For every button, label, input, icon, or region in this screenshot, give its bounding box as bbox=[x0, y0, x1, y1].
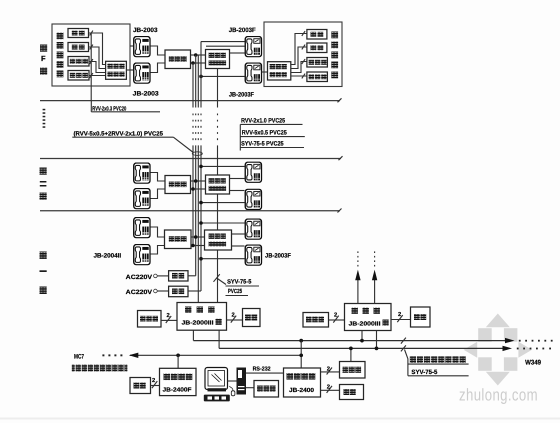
intercom phone B1 (floor1) bbox=[134, 244, 150, 264]
svg-text:RVV-2x1.0 PVC25: RVV-2x1.0 PVC25 bbox=[241, 117, 285, 124]
label floor 2 (第二层) bbox=[40, 168, 47, 200]
power supply 电源 (door2) bbox=[411, 307, 431, 327]
label (到各副管理机数量) bbox=[72, 365, 128, 372]
collector 四表采集器 (left) bbox=[106, 61, 127, 79]
wire stub box edge to phone1 bbox=[130, 45, 133, 47]
drop door2 to bus1 bbox=[361, 331, 363, 341]
svg-text:JB-2003: JB-2003 bbox=[133, 27, 158, 34]
junction dots on riser (floor F) bbox=[194, 53, 198, 57]
wire AC220V to power supply 2 bbox=[157, 290, 168, 292]
up arrow line 2 from door unit 2 bbox=[372, 251, 377, 304]
cable count slashes (right meters) bbox=[302, 31, 305, 78]
intercom phone 4 JB-2003F bbox=[245, 63, 261, 83]
computer tower bbox=[237, 368, 247, 395]
wire 电表 to collector bbox=[89, 33, 106, 65]
junction dot bus3 end bbox=[299, 353, 303, 357]
management computer monitor bbox=[205, 368, 228, 392]
svg-text:AC220V: AC220V bbox=[126, 289, 153, 296]
intercom phone B (floor2) bbox=[134, 188, 150, 208]
svg-text:W349: W349 bbox=[525, 359, 541, 366]
wire 水表 to collector bbox=[89, 47, 106, 69]
drop door2 to bus2 bbox=[376, 331, 378, 349]
svg-text:SYV-75-5: SYV-75-5 bbox=[227, 279, 252, 286]
wire power2 to riser bbox=[188, 290, 201, 292]
label SYV-75-5 PVC25 bbox=[240, 124, 304, 150]
wire 热量表 right to collector bbox=[291, 75, 307, 77]
riser wire 1 (x193) bbox=[192, 63, 194, 246]
svg-text:2: 2 bbox=[327, 384, 330, 391]
distributor 分配器 JB-200F (floor F) bbox=[206, 50, 230, 69]
drop to main manager bbox=[300, 341, 302, 368]
wire phone1 to isolator F bbox=[151, 46, 166, 55]
wire main manager to power box with 2-slash bbox=[321, 384, 340, 393]
floor separator line 2 bbox=[40, 158, 341, 160]
page bottom edge shading bbox=[0, 418, 560, 420]
wire door unit1 to power with 2-slash bbox=[227, 311, 243, 322]
junction dot bus3 to alarm unit bbox=[176, 353, 180, 357]
junction dot bus1 to main manager column bbox=[299, 339, 303, 343]
riser wire 2 (x195.7) bbox=[195, 55, 197, 276]
AC220V terminal circle (row1) bbox=[154, 274, 158, 278]
alarm/sub manager unit 副管理机 JB-2400F bbox=[160, 368, 197, 395]
svg-text:JB-2003F: JB-2003F bbox=[229, 27, 256, 34]
wire phone4 to collector (right) bbox=[262, 71, 268, 73]
meter box 电表 (left) bbox=[68, 29, 89, 38]
drop door1 to bus line2 bbox=[218, 330, 220, 348]
wire 热量表 to collector bbox=[89, 75, 106, 77]
label RVV-2x1.0 PVC25 bbox=[240, 117, 302, 124]
wire distributor2 to phoneC bbox=[230, 178, 245, 180]
intercom phone 1 JB-2003 bbox=[134, 36, 150, 56]
intercom phone D (floor2) bbox=[245, 189, 261, 209]
svg-text:2: 2 bbox=[327, 365, 330, 372]
wire 燃气表 to collector bbox=[89, 62, 106, 73]
wire lock2 to door unit2 with 2-slash bbox=[329, 311, 345, 322]
wire power to alarm unit with 2-slash bbox=[151, 377, 160, 388]
wire tower to printer bbox=[246, 387, 254, 389]
wire 燃气表 right to collector bbox=[291, 62, 307, 73]
wire phoneB to isolator 2 bbox=[151, 189, 166, 199]
watermark zhulong logo pinwheel bbox=[464, 314, 532, 386]
intercom phone A (floor2) bbox=[134, 163, 150, 183]
door lock 电控锁 (2) bbox=[303, 313, 329, 328]
svg-text:JB-2003F: JB-2003F bbox=[265, 252, 291, 259]
wire distributor1 to phoneC1 bbox=[232, 233, 245, 235]
svg-text:JB-2000III: JB-2000III bbox=[182, 320, 214, 327]
svg-text:JB-2400: JB-2400 bbox=[289, 387, 315, 394]
wire 水表 right to collector bbox=[291, 47, 307, 69]
wire distributor1 to phoneD1 bbox=[232, 245, 245, 247]
junction dots (floor1 wires) bbox=[194, 235, 198, 239]
isolator 隔离器 (floor2) bbox=[165, 176, 191, 194]
intercom phone C1 (floor1) bbox=[245, 219, 261, 239]
up arrow line 1 from door unit 2 bbox=[355, 251, 360, 304]
door unit 门口机 JB-2000III型 (1) bbox=[177, 303, 227, 331]
meter box 热量表 (left) bbox=[68, 71, 89, 81]
label floor F (第F层) bbox=[40, 45, 47, 75]
wire riser tap to phone3 (top) bbox=[201, 41, 245, 43]
svg-text:2: 2 bbox=[167, 312, 170, 319]
wire phoneA to isolator 2 bbox=[151, 173, 166, 182]
cable bundle ellipse marker bbox=[192, 152, 202, 156]
intercom phone A1 (floor1) bbox=[134, 217, 150, 237]
drop bus3 to alarm unit bbox=[177, 355, 179, 368]
cable monitor to tower bbox=[228, 380, 237, 382]
wire 电表 right to collector bbox=[291, 34, 307, 65]
floor line end ticks bbox=[338, 98, 343, 212]
power supply 电源 (floor1 row2) bbox=[169, 286, 188, 297]
label SYV-75-5 PVC25 with leader (riser) bbox=[214, 274, 260, 295]
wire riser tap to phoneC (floor2) bbox=[201, 165, 245, 167]
floor F left household enclosure box bbox=[52, 24, 130, 86]
bus line 1 with right arrow and dots bbox=[193, 338, 552, 343]
riser wire 3 (x198.3) bbox=[197, 55, 199, 303]
svg-text:2: 2 bbox=[334, 311, 337, 318]
label floor 1 (第一层) bbox=[40, 252, 47, 295]
svg-text:SYV-75-5 PVC25: SYV-75-5 PVC25 bbox=[241, 140, 284, 147]
svg-text:PVC25: PVC25 bbox=[228, 288, 243, 295]
distributor 分配器 JB-200F (floor1) bbox=[205, 230, 232, 250]
power supply 电源 (main manager) bbox=[340, 385, 364, 400]
wire riser tap to phoneC1 bbox=[201, 222, 245, 224]
bus line 3 (to sub managers) with left arrow bbox=[102, 353, 301, 358]
wire riser tap to phoneD (floor2) bbox=[201, 202, 245, 204]
svg-text:MC7: MC7 bbox=[74, 353, 84, 360]
svg-text:JB-2000III: JB-2000III bbox=[349, 321, 381, 328]
drop bus2 to monitor box bbox=[350, 348, 352, 361]
meter bus wire down to floor line bbox=[90, 33, 92, 101]
isolator 隔离器 (floor1) bbox=[165, 230, 192, 249]
intercom phone C (floor2) bbox=[245, 162, 261, 182]
floor separator line F bbox=[40, 100, 340, 102]
wire power1 to riser bbox=[188, 275, 196, 277]
wire phoneA1 to isolator1 bbox=[151, 227, 165, 237]
label RVV-2x0.3 PVC20 with leader bbox=[91, 101, 160, 113]
wires isolator2 to distributor2 bbox=[191, 181, 206, 189]
printer 打印机 bbox=[254, 381, 279, 398]
svg-text:(RVV-5x0.5+2RVV-2x1.0) PVC25: (RVV-5x0.5+2RVV-2x1.0) PVC25 bbox=[74, 130, 164, 137]
meter box 电表 (right) bbox=[307, 30, 327, 40]
svg-text:2: 2 bbox=[152, 377, 155, 384]
door lock 电控锁 (1) bbox=[138, 311, 162, 328]
svg-text:RS-232: RS-232 bbox=[253, 366, 271, 373]
leader and label 管屏蔽六芯双绞线 / SYV-75-5 bbox=[405, 350, 469, 377]
distributor 分配器 JB-200F (floor2) bbox=[206, 175, 230, 194]
riser video cable (x217.5) bbox=[217, 69, 219, 303]
wire riser tap to phone4 bbox=[201, 75, 245, 77]
svg-text:2: 2 bbox=[232, 311, 235, 318]
floor separator line 1 bbox=[40, 210, 340, 212]
power supply 电源 (alarm row) bbox=[130, 378, 151, 394]
power supply 电源 (door1) bbox=[243, 309, 261, 327]
main manager 主管理机 JB-2400 bbox=[284, 368, 321, 397]
wire RS-232 tower to main manager bbox=[246, 372, 284, 374]
svg-text:JB-2003: JB-2003 bbox=[133, 90, 160, 97]
wire AC220V to power supply 1 bbox=[157, 275, 168, 277]
meter box 水表 (left) bbox=[68, 43, 89, 52]
wires isolator F to distributor F bbox=[191, 55, 206, 63]
wire distributor2 to phoneD bbox=[230, 190, 245, 192]
meter box 燃气表 (left) bbox=[68, 57, 89, 67]
svg-text:JB-2004II: JB-2004II bbox=[94, 253, 122, 260]
label RVV-5x0.5 PVC25 bbox=[240, 130, 304, 137]
svg-text:JB-2400F: JB-2400F bbox=[163, 386, 192, 393]
label 每户均配置 (left, vertical) bbox=[57, 33, 64, 78]
floor F right household enclosure box bbox=[264, 22, 342, 87]
isolator 隔离器 (floor F) bbox=[165, 50, 191, 69]
svg-text:F: F bbox=[41, 54, 46, 63]
wire distributor F top to phone3 (second) bbox=[206, 45, 245, 47]
meter box 热量表 (right) bbox=[307, 72, 328, 82]
bus line 2 with right arrow and dots bbox=[219, 346, 551, 351]
computer keyboard bbox=[204, 395, 230, 402]
intercom phone 2 JB-2003 bbox=[134, 63, 150, 83]
svg-text:2: 2 bbox=[398, 311, 401, 318]
computer mouse bbox=[230, 386, 235, 396]
svg-text:AC220V: AC220V bbox=[126, 274, 153, 281]
label 每户均配置 (right, vertical) bbox=[331, 32, 338, 79]
wire riser tap to phoneD1 bbox=[201, 258, 245, 260]
slash ticks on bus lines bbox=[401, 338, 406, 352]
svg-text:JB-2003F: JB-2003F bbox=[229, 91, 254, 98]
junction dots (floor2 wires) bbox=[194, 179, 198, 183]
wire lock1 to door unit 1 with 2-slash bbox=[161, 312, 177, 323]
power supply 电源 (floor1 row1) bbox=[169, 271, 188, 281]
riser wire 4 (x201) bbox=[200, 42, 202, 291]
door unit 门口机 JB-2000III型 (2) bbox=[345, 304, 392, 331]
svg-text:zhulong.com: zhulong.com bbox=[459, 386, 538, 405]
wire distributor F to phone3 bbox=[230, 52, 245, 54]
collector 四表采集器 (right) bbox=[268, 62, 291, 80]
floor continuation dots bbox=[43, 109, 46, 128]
svg-text:SYV-75-5: SYV-75-5 bbox=[411, 369, 438, 376]
wires isolator1 to distributor1 bbox=[191, 237, 205, 246]
wire phoneB1 to isolator1 bbox=[151, 246, 165, 255]
label (RVV-5x0.5+2RVV-2x1.0) PVC25 with leader bbox=[72, 130, 193, 152]
meter box 燃气表 (right) bbox=[307, 58, 328, 68]
wire phone2 to isolator F bbox=[151, 63, 166, 73]
wire collector to phone2 bbox=[126, 69, 133, 71]
wire door2 to power with 2-slash bbox=[391, 311, 411, 322]
wire main manager to monitor box with 2-slash bbox=[321, 365, 340, 374]
monitor box 监视器 bbox=[340, 362, 366, 379]
intercom phone D1 (floor1) bbox=[245, 245, 261, 265]
svg-text:RVV-2x0.3 PVC20: RVV-2x0.3 PVC20 bbox=[92, 105, 126, 112]
svg-text:RVV-5x0.5 PVC25: RVV-5x0.5 PVC25 bbox=[242, 130, 287, 137]
drop door1 to bus line1 bbox=[192, 330, 194, 340]
AC220V terminal circle (row2) bbox=[154, 289, 158, 293]
meter box 水表 (right) bbox=[307, 43, 327, 53]
cable count slashes on meter wires bbox=[90, 31, 93, 78]
junction dot phone4 tap bbox=[199, 75, 203, 79]
intercom phone 3 JB-2003F bbox=[245, 36, 261, 56]
